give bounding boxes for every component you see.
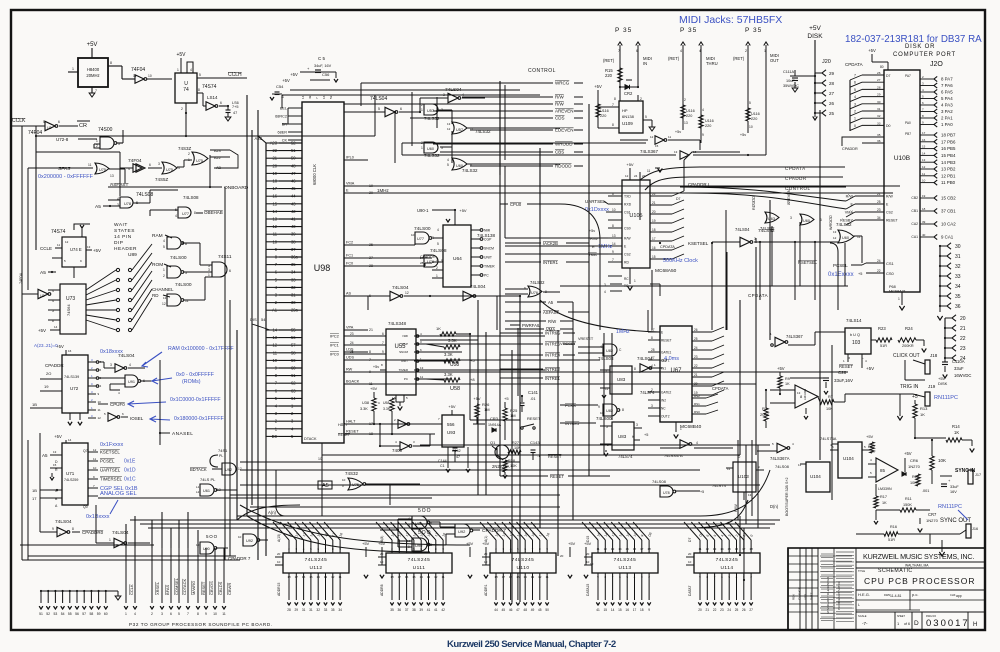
buffer 74LS367 midi2	[680, 151, 689, 159]
svg-text:74LS32: 74LS32	[836, 222, 852, 227]
svg-text:CPADDR: CPADDR	[842, 147, 858, 151]
svg-text:R14: R14	[952, 424, 960, 429]
svg-text:15: 15	[53, 463, 57, 467]
U110 enable pins	[482, 556, 490, 558]
svg-text:P 35: P 35	[745, 27, 762, 34]
svg-text:1K: 1K	[954, 430, 959, 435]
svg-text:29: 29	[295, 608, 299, 612]
svg-text:RD: RD	[624, 261, 629, 265]
svg-text:5: 5	[104, 412, 106, 416]
U113 top pin fan	[597, 540, 599, 553]
J20 pins 25-29	[815, 72, 822, 74]
wire trunk horizontal h5	[240, 484, 760, 486]
svg-text:(RET): (RET)	[603, 58, 615, 63]
svg-text:8: 8	[651, 336, 653, 340]
svg-text:CS1: CS1	[624, 211, 631, 215]
svg-text:RN111PC: RN111PC	[938, 504, 962, 510]
wire mid horizontal R-W to PIA	[368, 383, 756, 385]
svg-text:74LS32: 74LS32	[530, 280, 545, 285]
svg-text:P68: P68	[889, 285, 896, 289]
wire PWRFAIL vertical	[517, 328, 519, 396]
svg-text:24: 24	[727, 608, 731, 612]
svg-text:18: 18	[494, 575, 498, 579]
svg-text:15: 15	[922, 145, 926, 149]
svg-text:23: 23	[642, 174, 646, 178]
svg-text:C54: C54	[276, 84, 284, 89]
svg-text:C: C	[619, 348, 622, 352]
svg-text:COMPUTER PORT: COMPUTER PORT	[893, 52, 956, 58]
svg-text:74LS32: 74LS32	[424, 153, 440, 158]
label ANASEL	[159, 432, 161, 434]
svg-text:6: 6	[721, 575, 723, 579]
svg-text:A5: A5	[322, 483, 329, 489]
svg-text:4: 4	[163, 239, 165, 243]
svg-text:13: 13	[87, 245, 91, 249]
svg-text:6: 6	[612, 192, 614, 196]
wire U75 output to bus	[389, 485, 391, 505]
svg-text:AREVEN: AREVEN	[787, 189, 791, 205]
wire clock bus	[36, 135, 186, 137]
op-amp LM339 sync	[876, 458, 898, 482]
svg-text:28: 28	[829, 81, 835, 86]
svg-text:6 PA5: 6 PA5	[941, 90, 953, 95]
U109 output	[643, 119, 652, 121]
svg-text:NC: NC	[661, 407, 666, 411]
svg-text:14: 14	[612, 242, 616, 246]
svg-text:54: 54	[261, 317, 266, 322]
svg-text:74LS367: 74LS367	[640, 149, 659, 154]
svg-text:+5V: +5V	[473, 396, 481, 401]
svg-text:8: 8	[612, 123, 614, 127]
svg-text:7: 7	[714, 575, 716, 579]
svg-text:SFAS: SFAS	[58, 166, 70, 172]
wire horizontal link y420	[470, 419, 520, 421]
svg-text:30: 30	[955, 244, 961, 250]
svg-text:22: 22	[877, 269, 881, 273]
svg-text:NMI: NMI	[403, 334, 409, 338]
svg-text:U76: U76	[531, 291, 538, 295]
svg-text:14: 14	[618, 547, 622, 551]
svg-text:12: 12	[625, 174, 629, 178]
svg-text:UARTSEL: UARTSEL	[100, 468, 121, 473]
svg-text:11: 11	[596, 547, 599, 551]
svg-text:CHK: CHK	[950, 593, 956, 597]
svg-text:8: 8	[634, 367, 636, 371]
svg-text:+5V: +5V	[626, 162, 634, 167]
svg-text:10: 10	[148, 74, 152, 78]
svg-text:MC68A50: MC68A50	[655, 268, 677, 274]
U110 top pin fan	[495, 540, 497, 553]
svg-text:U60: U60	[427, 147, 434, 151]
wire bottom sweep to LS245	[240, 505, 470, 545]
vertical left rail to bottom	[39, 433, 41, 532]
or U60 74LS32	[424, 142, 438, 153]
svg-text:A5: A5	[40, 270, 46, 276]
svg-text:16: 16	[735, 547, 739, 551]
svg-text:37: 37	[291, 247, 296, 252]
svg-text:48: 48	[291, 163, 296, 168]
svg-text:2: 2	[288, 547, 290, 551]
svg-text:29a: 29a	[291, 308, 299, 313]
svg-text:R: R	[55, 468, 58, 472]
svg-text:150K: 150K	[903, 503, 912, 507]
svg-text:4: 4	[634, 575, 636, 579]
svg-text:WALTHAM, MA: WALTHAM, MA	[905, 564, 929, 568]
svg-text:U60: U60	[803, 219, 810, 223]
svg-text:12 PB1: 12 PB1	[941, 173, 956, 178]
svg-text:48: 48	[523, 608, 527, 612]
svg-text:A5: A5	[42, 453, 48, 458]
svg-text:32: 32	[955, 264, 961, 270]
svg-text:OBEHAB: OBEHAB	[204, 210, 223, 215]
svg-text:U72-8: U72-8	[56, 137, 69, 142]
svg-text:AREVEN: AREVEN	[555, 109, 574, 114]
svg-text:7: 7	[854, 74, 856, 78]
wire rails left cluster	[35, 136, 37, 250]
svg-text:DIS: DIS	[250, 317, 257, 322]
svg-text:22: 22	[960, 336, 966, 342]
svg-text:5OO: 5OO	[418, 508, 432, 514]
svg-text:74LS74: 74LS74	[712, 483, 727, 488]
svg-text:55: 55	[291, 328, 296, 333]
latch U71 74LS259	[62, 443, 88, 505]
svg-text:53: 53	[54, 612, 58, 616]
svg-text:74LS32: 74LS32	[760, 226, 775, 231]
svg-text:11: 11	[57, 243, 60, 247]
svg-text:2: 2	[750, 575, 752, 579]
svg-text:-7-: -7-	[862, 621, 868, 626]
svg-text:15: 15	[618, 608, 622, 612]
svg-text:2O: 2O	[46, 371, 51, 376]
svg-text:4 PA3: 4 PA3	[941, 103, 953, 108]
svg-text:MC68B40: MC68B40	[680, 424, 702, 430]
svg-text:3: 3	[502, 547, 504, 551]
wire trunk horizontal h6	[250, 506, 560, 508]
svg-text:4: 4	[680, 49, 682, 53]
svg-text:R/W: R/W	[555, 95, 565, 100]
wire verticals below KSETSEL	[651, 270, 653, 330]
svg-text:IOSEL: IOSEL	[130, 416, 144, 421]
long horizontal buses above LS245	[130, 519, 780, 521]
svg-text:TRIG IN: TRIG IN	[900, 384, 919, 390]
svg-text:23: 23	[720, 608, 724, 612]
svg-text:U64: U64	[453, 256, 462, 262]
svg-text:2: 2	[91, 366, 93, 370]
svg-text:26: 26	[742, 608, 746, 612]
svg-text:31: 31	[291, 293, 296, 298]
svg-text:2: 2	[96, 144, 98, 148]
svg-text:PCSEL: PCSEL	[100, 459, 115, 464]
svg-text:12: 12	[922, 165, 926, 169]
svg-text:A(15): A(15)	[277, 534, 281, 542]
wire vertical 565	[572, 302, 574, 333]
svg-text:50: 50	[291, 156, 296, 161]
svg-text:10 CA2: 10 CA2	[941, 222, 956, 227]
svg-text:9: 9	[597, 575, 599, 579]
wire bundle midleft vertical	[246, 95, 248, 516]
svg-text:12: 12	[447, 127, 451, 131]
svg-text:8: 8	[72, 527, 74, 531]
svg-text:21: 21	[694, 373, 698, 377]
svg-text:17: 17	[398, 575, 402, 579]
svg-text:RESET: RESET	[661, 339, 672, 343]
svg-text:VMA: VMA	[546, 327, 555, 332]
svg-text:U78: U78	[663, 491, 670, 495]
svg-text:C110A: C110A	[952, 359, 965, 364]
svg-text:11: 11	[668, 135, 671, 139]
svg-text:74LS259: 74LS259	[64, 478, 78, 482]
svg-text:44: 44	[291, 194, 296, 199]
svg-text:42: 42	[291, 209, 296, 214]
svg-text:33: 33	[324, 608, 328, 612]
svg-text:51: 51	[39, 612, 43, 616]
svg-text:220: 220	[605, 73, 613, 78]
svg-text:74LS245: 74LS245	[614, 557, 637, 563]
svg-text:220: 220	[705, 124, 711, 128]
svg-text:12: 12	[833, 236, 837, 240]
wire bottom-left horizontal	[20, 544, 154, 546]
svg-text:1: 1	[125, 612, 127, 616]
svg-text:+5V: +5V	[290, 72, 298, 77]
svg-text:18: 18	[287, 575, 291, 579]
svg-text:CPDATA: CPDATA	[748, 293, 768, 298]
svg-text:R24: R24	[905, 326, 913, 331]
svg-text:HALT: HALT	[346, 420, 356, 424]
svg-text:5: 5	[864, 445, 866, 449]
svg-text:CCLK: CCLK	[12, 118, 26, 124]
svg-text:+5V: +5V	[482, 541, 490, 546]
svg-text:85: 85	[880, 468, 886, 473]
svg-text:CB2: CB2	[911, 196, 918, 200]
svg-text:17: 17	[502, 575, 506, 579]
svg-text:HEADER: HEADER	[114, 246, 137, 252]
svg-text:8: 8	[197, 612, 199, 616]
op-amp LM339 trig	[795, 385, 818, 408]
svg-text:5: 5	[199, 73, 201, 77]
svg-text:U83: U83	[617, 377, 626, 382]
svg-text:BOOT/SUPER 32B S+2: BOOT/SUPER 32B S+2	[785, 478, 789, 516]
svg-text:XRSEL: XRSEL	[155, 581, 160, 595]
svg-text:0x0 - 0x0FFFFF: 0x0 - 0x0FFFFF	[176, 372, 215, 378]
wire trunk vertical v8	[769, 200, 771, 340]
svg-text:CONTROL: CONTROL	[528, 68, 556, 74]
svg-text:17: 17	[32, 496, 37, 501]
svg-text:030017: 030017	[926, 618, 970, 629]
svg-text:L2: L2	[196, 490, 200, 494]
svg-text:0x1Exxxx: 0x1Exxxx	[828, 272, 854, 278]
svg-text:0: 0	[854, 124, 856, 128]
svg-text:14: 14	[720, 547, 724, 551]
svg-text:ANASEL: ANASEL	[172, 431, 193, 437]
svg-text:9: 9	[205, 612, 207, 616]
svg-text:6: 6	[100, 368, 102, 372]
svg-text:57: 57	[82, 612, 86, 616]
svg-text:13: 13	[612, 234, 616, 238]
svg-text:22: 22	[694, 364, 698, 368]
label CPADDR7	[472, 529, 480, 531]
svg-text:5: 5	[178, 612, 180, 616]
svg-text:U75: U75	[166, 168, 173, 172]
wires 500 gates	[398, 518, 412, 520]
svg-text:5: 5	[728, 575, 730, 579]
buffer 74LS347A	[680, 440, 689, 448]
svg-text:53: 53	[329, 95, 333, 99]
svg-text:20: 20	[277, 552, 281, 556]
svg-text:4: 4	[437, 228, 439, 232]
svg-text:1MHz: 1MHz	[377, 188, 390, 193]
svg-text:0: 0	[749, 534, 753, 538]
svg-text:63: 63	[291, 388, 296, 393]
acia U105 right pins data fan	[650, 195, 672, 197]
svg-text:18: 18	[545, 532, 550, 537]
svg-text:3: 3	[420, 340, 422, 344]
svg-text:59: 59	[97, 612, 101, 616]
svg-text:CCLH: CCLH	[228, 72, 242, 78]
svg-text:12: 12	[650, 135, 654, 139]
cpu U98 address bus spine	[265, 143, 267, 330]
svg-text:J2O: J2O	[930, 61, 943, 68]
svg-text:A5: A5	[548, 300, 554, 305]
svg-text:23: 23	[350, 332, 354, 336]
svg-text:J18: J18	[930, 353, 938, 358]
svg-text:31: 31	[302, 608, 306, 612]
wire clickout	[788, 344, 815, 346]
svg-text:RC: RC	[624, 277, 629, 281]
mux U73 74S64	[60, 284, 86, 334]
svg-text:0x180000-0x1FFFFF: 0x180000-0x1FFFFF	[174, 416, 225, 422]
svg-text:0x1E: 0x1E	[124, 459, 136, 465]
svg-text:GATE1: GATE1	[661, 351, 671, 355]
svg-text:CS2: CS2	[886, 211, 893, 215]
svg-text:RESET: RESET	[201, 581, 206, 595]
svg-text:11: 11	[647, 169, 651, 173]
svg-text:1: 1	[91, 374, 93, 378]
svg-text:RDODD: RDODD	[555, 164, 572, 169]
svg-text:15: 15	[604, 608, 608, 612]
svg-text:15: 15	[728, 547, 732, 551]
buffer 74LS367A	[777, 443, 787, 452]
svg-text:6: 6	[229, 269, 231, 273]
timer gnd	[675, 422, 677, 432]
svg-text:IN: IN	[643, 61, 647, 66]
svg-text:3.3K: 3.3K	[444, 372, 453, 377]
wire control top corner	[360, 83, 362, 106]
svg-text:16V: 16V	[950, 490, 957, 494]
svg-text:+5V: +5V	[56, 344, 64, 349]
svg-text:3: 3	[295, 547, 297, 551]
svg-text:24: 24	[694, 346, 698, 350]
svg-text:1: 1	[163, 268, 165, 272]
svg-text:52: 52	[46, 612, 50, 616]
svg-text:27: 27	[829, 91, 835, 96]
svg-text:PB7: PB7	[905, 132, 911, 136]
svg-text:4: 4	[922, 88, 924, 92]
svg-text:J17: J17	[975, 473, 981, 477]
svg-text:1: 1	[421, 108, 423, 112]
U64 outputs	[471, 229, 480, 231]
svg-text:ADDR1: ADDR1	[484, 584, 488, 596]
wire vertical 840	[844, 243, 846, 286]
nand U92 bottom	[455, 524, 470, 537]
svg-text:19: 19	[44, 384, 49, 389]
cpu U98 data pin ladder	[279, 329, 302, 331]
svg-text:8: 8	[922, 114, 924, 118]
svg-text:4: 4	[699, 49, 701, 53]
svg-text:9: 9	[80, 259, 82, 263]
svg-text:U103: U103	[738, 474, 749, 479]
svg-text:24: 24	[634, 174, 638, 178]
svg-text:12: 12	[65, 240, 69, 244]
svg-text:BEL: BEL	[280, 107, 287, 111]
svg-text:RN111PC: RN111PC	[934, 395, 958, 401]
svg-text:KSETSEL: KSETSEL	[688, 241, 709, 246]
svg-text:21: 21	[652, 201, 656, 205]
svg-text:74LS367A: 74LS367A	[770, 456, 790, 461]
wire vertical 512	[511, 350, 513, 602]
svg-text:74LS04: 74LS04	[118, 353, 135, 359]
svg-text:CFADDR: CFADDR	[420, 255, 436, 259]
svg-text:A: A	[55, 504, 58, 508]
wire vertical 486	[485, 332, 487, 495]
svg-text:PA0: PA0	[905, 121, 911, 125]
svg-text:25: 25	[350, 350, 354, 354]
svg-text:VPA: VPA	[346, 326, 354, 330]
svg-text:BGACK: BGACK	[346, 380, 360, 384]
svg-text:CHANNEL: CHANNEL	[152, 287, 174, 292]
svg-text:H8400: H8400	[87, 67, 100, 72]
wire trunk horizontal h3	[322, 454, 740, 456]
U112 bottom pin fan	[288, 573, 290, 600]
svg-text:8: 8	[435, 547, 437, 551]
svg-text:KSETSEL: KSETSEL	[100, 450, 120, 455]
svg-text:9 CA1: 9 CA1	[941, 235, 954, 240]
svg-text:WRCG: WRCG	[555, 81, 570, 86]
U71 output ANALOG SEL blue	[88, 495, 98, 497]
svg-text:15: 15	[412, 575, 416, 579]
svg-text:U113: U113	[618, 565, 631, 571]
timer U67 left pins	[648, 331, 660, 333]
svg-text:22: 22	[713, 608, 717, 612]
svg-text:10K: 10K	[938, 458, 946, 463]
svg-text:103: 103	[852, 340, 861, 346]
nand U92 bottom-left	[243, 534, 257, 546]
svg-text:24: 24	[877, 259, 881, 263]
svg-text:74LS08: 74LS08	[136, 192, 153, 198]
svg-text:23: 23	[694, 355, 698, 359]
svg-text:7: 7	[612, 103, 614, 107]
title block left columns	[799, 548, 801, 630]
svg-text:12: 12	[604, 547, 608, 551]
svg-text:18: 18	[647, 547, 651, 551]
U55 bottom pins	[395, 395, 397, 402]
svg-text:44: 44	[494, 608, 498, 612]
svg-text:74LS08: 74LS08	[775, 464, 790, 469]
svg-text:5: 5	[749, 101, 751, 105]
svg-text:3: 3	[854, 102, 856, 106]
wire AS gates	[344, 103, 380, 105]
svg-text:20: 20	[688, 552, 692, 556]
svg-text:A(n): A(n)	[268, 510, 277, 515]
svg-text:7: 7	[93, 484, 95, 488]
acia U105 body	[622, 180, 650, 268]
svg-text:NMI: NMI	[484, 228, 490, 232]
cpu U98 MC68000 body	[302, 102, 344, 443]
svg-text:P32 TO GROUP PROCESSOR SO: P32 TO GROUP PROCESSOR SOUNDFILE PC BOAR…	[129, 622, 273, 627]
svg-text:+5V: +5V	[378, 541, 386, 546]
svg-text:3: 3	[790, 216, 792, 220]
svg-text:ASFAST: ASFAST	[543, 310, 559, 315]
svg-text:RDODD: RDODD	[752, 196, 756, 210]
